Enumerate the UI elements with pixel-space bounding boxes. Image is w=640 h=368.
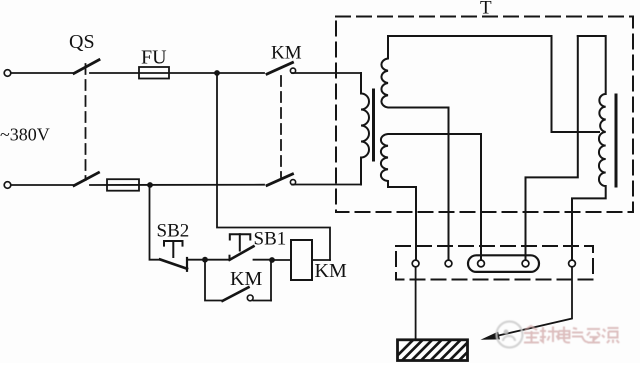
wire — [292, 184, 361, 186]
node junction top — [214, 70, 220, 76]
wire — [11, 184, 73, 186]
contact KM auxiliary (self-hold) — [205, 262, 223, 301]
arrowhead — [481, 332, 500, 340]
coil KM — [291, 240, 312, 280]
fuse FU1 — [139, 67, 169, 79]
svg-text:SB1: SB1 — [254, 229, 287, 250]
svg-text:QS: QS — [69, 31, 95, 53]
电 — [559, 327, 571, 343]
secondary winding S2 (lower-left) — [381, 134, 481, 260]
wire electrode lead — [415, 267, 417, 340]
watermark logo — [497, 322, 523, 348]
svg-text:KM: KM — [271, 43, 302, 64]
transformer primary winding — [361, 73, 369, 185]
wire — [90, 184, 264, 186]
terminal 3 — [478, 260, 485, 267]
wire — [90, 72, 264, 74]
watermark text — [524, 326, 619, 343]
wire — [292, 72, 361, 74]
secondary winding S1 (upper-left) — [381, 36, 448, 260]
wire control feed vertical — [217, 76, 330, 261]
svg-text:SB2: SB2 — [157, 221, 190, 242]
wire — [11, 72, 73, 74]
switch QS pole 1 — [74, 60, 99, 74]
源 — [602, 328, 619, 343]
winding S3 (right leg) — [572, 36, 606, 260]
wire B right leg top-left branch — [526, 36, 578, 260]
terminal 2 — [445, 260, 452, 267]
QS mechanical link (dashed) — [85, 64, 87, 180]
wire SB2 feed — [150, 187, 162, 260]
wire coil right — [312, 259, 330, 261]
KM mechanical link (dashed) — [280, 76, 282, 177]
connecting link strap — [468, 255, 539, 272]
wire — [187, 259, 230, 261]
terminal 1 — [412, 260, 419, 267]
wire coil left — [272, 259, 291, 261]
core bar right — [615, 95, 618, 186]
workpiece (hatched) — [391, 340, 489, 362]
fuse FU2 — [107, 179, 139, 191]
wire S1 top to right leg tap — [388, 36, 599, 132]
terminal 4 — [522, 260, 529, 267]
transformer box T (dashed) — [336, 17, 633, 213]
svg-text:KM: KM — [230, 268, 262, 290]
wire workpiece lead — [495, 267, 572, 336]
svg-text:FU: FU — [141, 47, 167, 69]
svg-text:KM: KM — [315, 260, 347, 282]
contact KM pole 2 — [267, 174, 293, 185]
terminal 5 — [569, 260, 576, 267]
wire — [254, 259, 273, 261]
node — [269, 257, 275, 263]
pushbutton SB1 (NO) — [230, 234, 254, 260]
switch QS pole 2 — [74, 173, 99, 186]
气 — [572, 328, 588, 342]
node junction bottom — [147, 182, 153, 188]
资 — [587, 329, 600, 343]
terminal L2 — [4, 182, 11, 189]
contact KM pole 1 — [267, 63, 293, 75]
terminal board (dashed) — [396, 246, 593, 280]
svg-text:~380V: ~380V — [0, 125, 50, 145]
pushbutton SB2 (NC) — [160, 241, 187, 271]
球 — [540, 327, 559, 343]
全 — [524, 326, 539, 343]
node — [202, 257, 208, 263]
terminal L1 — [4, 70, 11, 77]
svg-text:T: T — [480, 0, 492, 19]
core bar left — [372, 90, 375, 160]
